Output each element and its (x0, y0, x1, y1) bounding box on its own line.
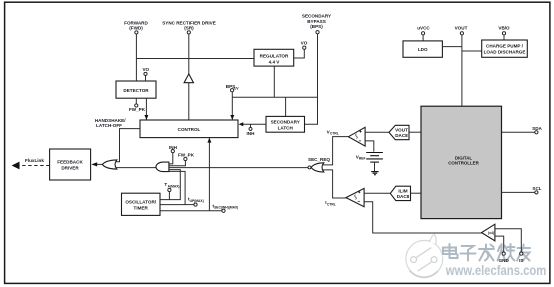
wire VOUT down to DIGITAL CONTROLLER (461, 35, 463, 106)
amplifier U-IS (x4) (482, 224, 495, 241)
svg-text:FEEDBACK: FEEDBACK (57, 160, 83, 165)
svg-text:IS: IS (519, 258, 523, 263)
电 (443, 244, 458, 258)
svg-text:GND: GND (499, 258, 510, 263)
label VCTRL (327, 129, 339, 135)
battery VREF (356, 153, 383, 163)
wire OR gate to FEEDBACK DRIVER (96, 163, 102, 165)
wire NOR bottom input from ICTRL comparator (322, 170, 346, 198)
svg-text:OSCILLATOR/: OSCILLATOR/ (125, 199, 156, 204)
wire comp2 + input to ILIM DAC (364, 192, 390, 194)
svg-text:LATCH: LATCH (278, 125, 294, 130)
wire BPS net horizontal (232, 96, 317, 98)
node INH (AND input) (169, 145, 178, 164)
svg-text:4.4 V: 4.4 V (269, 60, 281, 65)
wire IS amp bottom input (495, 236, 504, 252)
node TA(MAX) (164, 182, 179, 199)
svg-text:SEC(INH)(MAX): SEC(INH)(MAX) (214, 206, 238, 210)
charge pump U-CP box (482, 40, 528, 57)
dac ILIM DAC8 (390, 186, 410, 200)
wire CONTROL bottom to timer net (208, 138, 210, 211)
wire buffer to CONTROL top (188, 83, 190, 121)
svg-text:www.elecfans.com: www.elecfans.com (445, 263, 546, 278)
svg-text:SCL: SCL (532, 186, 541, 191)
svg-text:FW_PK: FW_PK (129, 107, 146, 112)
svg-text:INH: INH (169, 145, 178, 150)
node FW_PK (AND input) (169, 153, 195, 166)
ldo U-LDO box (403, 41, 442, 57)
detector U-DET box (116, 81, 156, 98)
node INH (latch line) (247, 124, 256, 136)
子 (461, 246, 476, 261)
node SDA pin (532, 126, 542, 134)
watermark logo disc (406, 234, 443, 277)
watermark chinese text 电子发烧友 (hand-drawn strokes) (444, 245, 531, 262)
svg-text:FW_PK: FW_PK (178, 153, 195, 158)
wire comp2 - input to current sense line (364, 202, 481, 233)
svg-text:SDA: SDA (532, 126, 542, 131)
svg-text:VOUT: VOUT (395, 127, 408, 132)
wire REGULATOR output down to BPS net (273, 66, 275, 97)
svg-text:uVCC: uVCC (417, 25, 430, 30)
wire DETECTOR to CONTROL top (145, 98, 147, 119)
dac VOUT DAC8 (389, 125, 409, 139)
wire VOUT DAC to DIGITAL CONTROLLER (409, 131, 421, 133)
node FW_PK (detector output) (129, 104, 146, 112)
svg-text:CHARGE PUMP /: CHARGE PUMP / (486, 43, 524, 48)
ground (371, 172, 378, 175)
wire VB/O to CHARGE PUMP (503, 35, 505, 40)
wire BPS net down to SECONDARY LATCH (285, 97, 287, 116)
svg-text:LOAD DISCHARGE: LOAD DISCHARGE (484, 49, 526, 54)
node VO (regulator) (301, 41, 308, 50)
wire VREF to ground (374, 162, 376, 171)
label HANDSHAKE/LATCH-OFF (95, 118, 126, 128)
nor-gate U-NOR (SEC_REQ) (311, 163, 324, 172)
svg-text:REF: REF (359, 157, 366, 161)
comparator U-IC (ILIM control) (346, 188, 364, 206)
buffer SR driver triangle (184, 74, 193, 83)
svg-text:UV: UV (234, 86, 239, 90)
node BPS_UV (226, 84, 240, 92)
svg-text:UP(MAX): UP(MAX) (190, 199, 204, 203)
wire AND output to OR gate (116, 167, 157, 169)
node SCL pin (532, 186, 541, 194)
comparator U-VC (VOUT control) (348, 127, 365, 146)
svg-text:CONTROL: CONTROL (178, 127, 201, 132)
svg-text:VO: VO (142, 67, 149, 72)
node VOUT pin (455, 25, 468, 35)
svg-text:LATCH-OFF: LATCH-OFF (96, 123, 122, 128)
wire BPS vertical (305, 34, 318, 124)
svg-text:VB/O: VB/O (498, 25, 510, 30)
label ICTRL (325, 200, 336, 206)
oscillator/timer U-OSC box (122, 193, 161, 215)
wire comp1 + input to VOUT DAC (365, 131, 389, 133)
node SYNC RECTIFIER DRIVE (SR) pin (162, 21, 216, 34)
node FORWARD (FWD) pin (124, 21, 148, 34)
svg-text:CTRL: CTRL (327, 202, 336, 206)
or-gate U-OR (102, 160, 116, 169)
node uVCC pin (417, 25, 430, 35)
wire SECONDARY LATCH to CONTROL (INH) (243, 123, 267, 125)
wire SCL line (502, 191, 535, 193)
wire SEC_REQ line to AND gate (169, 167, 308, 169)
svg-text:INH: INH (247, 131, 256, 136)
svg-text:(SR): (SR) (184, 26, 194, 31)
svg-text:CONTROLLER: CONTROLLER (448, 161, 479, 166)
svg-text:DRIVER: DRIVER (61, 166, 79, 171)
node IS pin (519, 252, 523, 263)
wire uVCC to LDO (422, 35, 424, 41)
wire FluxLink dashed arrow (12, 158, 50, 170)
wire ILIM DAC to DIGITAL CONTROLLER (411, 192, 422, 194)
烧 (498, 244, 515, 261)
and-gate U-AND (156, 162, 169, 172)
wire comp1 - input to VREF (365, 141, 374, 152)
secondary latch U-LATCH box (266, 116, 305, 132)
node GND pin (499, 252, 510, 263)
svg-text:(BPS): (BPS) (310, 24, 323, 29)
wire VO stub into DETECTOR (145, 76, 147, 82)
wire NOR top input from VCTRL comparator (322, 137, 348, 165)
svg-text:REGULATOR: REGULATOR (260, 54, 289, 59)
友 (517, 245, 530, 261)
svg-text:SEC_REQ: SEC_REQ (308, 157, 330, 162)
wire DETECTOR to FW_PK circle (135, 98, 137, 104)
digital controller U-DC box (421, 106, 502, 218)
svg-text:(x4): (x4) (488, 231, 494, 235)
wire IS amp top input (495, 229, 521, 252)
wire BPS_UV to CONTROL top (231, 92, 233, 120)
wire timer line2 to AND input (160, 171, 185, 204)
wire LDO to VOUT net (442, 46, 462, 48)
node VO (detector) (142, 67, 149, 75)
node VB/O pin (498, 25, 510, 35)
node tSEC(INH)(MAX) (213, 203, 239, 212)
feedback driver U-FB box (50, 149, 91, 180)
WATERMARK (406, 234, 548, 279)
node SECONDARY BYPASS (BPS) pin (302, 14, 331, 34)
wire handshake CONTROL to OR gate (116, 129, 140, 162)
control U-CTRL box (140, 120, 238, 138)
svg-text:DAC8: DAC8 (397, 194, 410, 199)
wire SDA line (502, 131, 535, 133)
svg-text:DETECTOR: DETECTOR (123, 88, 149, 93)
wire timer line1 to AND input (160, 170, 180, 200)
svg-text:FluxLink: FluxLink (25, 158, 44, 163)
svg-text:A(MAX): A(MAX) (168, 184, 180, 188)
wire VOUT net to CHARGE PUMP (462, 50, 482, 52)
svg-text:VOUT: VOUT (455, 25, 468, 30)
svg-text:SECONDARY: SECONDARY (271, 119, 300, 124)
wire FWD node to REGULATOR input (136, 58, 254, 60)
wire REGULATOR to VO stub (294, 49, 305, 58)
svg-text:(FWD): (FWD) (129, 26, 143, 31)
svg-text:VO: VO (301, 41, 308, 46)
发 (479, 245, 494, 261)
wire timer line3 (160, 210, 222, 212)
svg-text:CTRL: CTRL (330, 132, 339, 136)
svg-text:LDO: LDO (418, 47, 428, 52)
regulator U-REG box (254, 49, 294, 66)
svg-text:ILIM: ILIM (398, 188, 407, 193)
wire FWD vertical into DETECTOR (135, 34, 137, 81)
wire SR pin to buffer (188, 34, 190, 75)
svg-text:TIMER: TIMER (134, 205, 149, 210)
svg-text:DAC8: DAC8 (395, 133, 408, 138)
node tUP(MAX) (185, 197, 204, 207)
